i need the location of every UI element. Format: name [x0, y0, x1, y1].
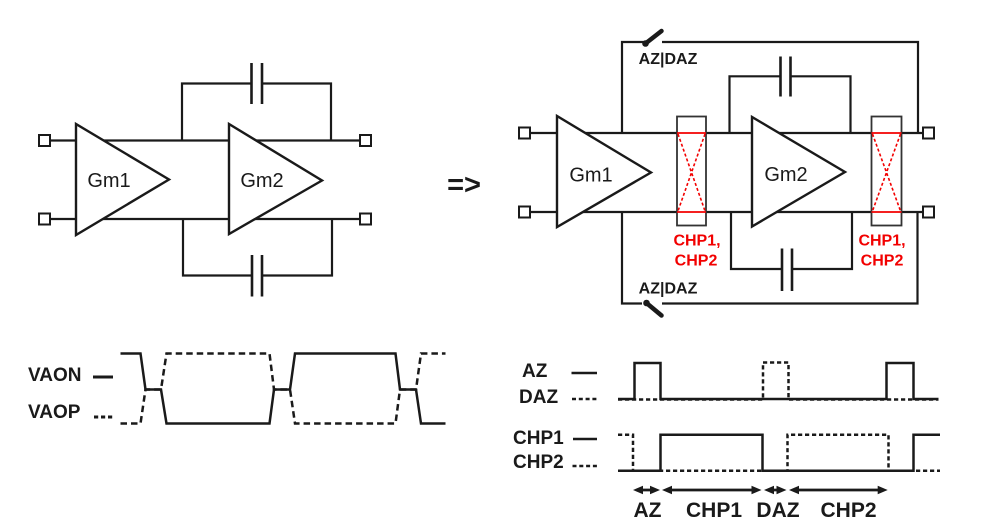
svg-text:CHP2: CHP2	[675, 253, 718, 270]
svg-text:DAZ: DAZ	[519, 387, 558, 408]
svg-text:CHP1,: CHP1,	[673, 233, 720, 250]
svg-text:CHP1: CHP1	[513, 428, 564, 449]
svg-text:Gm1: Gm1	[569, 165, 612, 187]
svg-text:Gm2: Gm2	[764, 164, 807, 186]
svg-text:VAOP: VAOP	[28, 402, 81, 423]
svg-text:Gm1: Gm1	[87, 170, 130, 192]
svg-text:CHP2: CHP2	[861, 253, 904, 270]
svg-text:DAZ: DAZ	[756, 499, 799, 522]
svg-text:CHP1,: CHP1,	[858, 233, 905, 250]
svg-text:CHP2: CHP2	[820, 499, 876, 522]
svg-text:AZ|DAZ: AZ|DAZ	[639, 281, 698, 298]
svg-text:AZ: AZ	[522, 361, 548, 382]
svg-text:CHP1: CHP1	[686, 499, 742, 522]
svg-text:AZ: AZ	[634, 499, 662, 522]
svg-text:CHP2: CHP2	[513, 452, 564, 473]
svg-text:VAON: VAON	[28, 365, 81, 386]
svg-text:AZ|DAZ: AZ|DAZ	[639, 51, 698, 68]
svg-text:=>: =>	[447, 169, 481, 201]
svg-text:Gm2: Gm2	[240, 170, 283, 192]
